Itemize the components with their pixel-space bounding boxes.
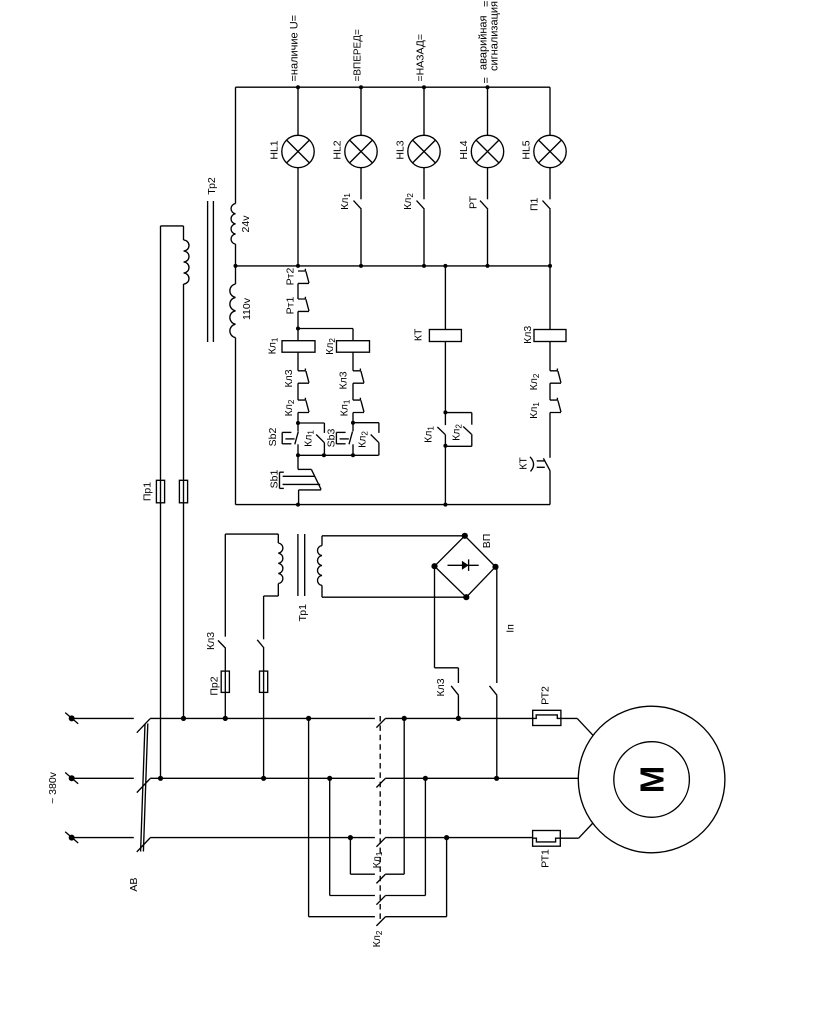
svg-text:Кл1: Кл1 [339,399,352,416]
svg-text:Кл2: Кл2 [528,373,541,390]
svg-text:HL5: HL5 [521,140,533,159]
svg-text:РТ: РТ [467,195,479,209]
svg-text:Sb1: Sb1 [269,470,281,489]
svg-text:Кл2: Кл2 [451,424,464,441]
svg-text:Кл1: Кл1 [528,402,541,419]
svg-text:Пр2: Пр2 [209,676,221,695]
svg-text:HL3: HL3 [395,140,407,159]
svg-text:Кл3: Кл3 [522,326,534,344]
svg-text:Iп: Iп [505,624,517,633]
svg-text:=НАЗАД=: =НАЗАД= [415,34,427,82]
svg-text:24v: 24v [240,215,252,233]
svg-text:~ 380v: ~ 380v [47,771,59,804]
svg-text:Кл2: Кл2 [402,193,415,210]
svg-text:Рт1: Рт1 [285,297,297,315]
svg-text:М: М [634,766,671,794]
svg-text:Кл3: Кл3 [283,369,295,387]
svg-text:Кл1: Кл1 [371,851,384,868]
svg-text:HL1: HL1 [269,140,281,159]
svg-text:Кл2: Кл2 [283,399,296,416]
svg-text:Кл2: Кл2 [371,930,384,947]
svg-text:Кл2: Кл2 [324,338,337,355]
svg-text:РТ2: РТ2 [540,686,552,705]
svg-text:HL2: HL2 [332,140,344,159]
svg-text:Sb2: Sb2 [267,428,279,447]
svg-text:Кл1: Кл1 [303,430,316,447]
svg-text:Рт2: Рт2 [285,268,297,286]
svg-text:Кл3: Кл3 [338,371,350,389]
svg-text:сигнализация: сигнализация [489,1,501,71]
svg-text:110v: 110v [241,297,253,320]
svg-text:Кл1: Кл1 [339,193,352,210]
svg-text:HL4: HL4 [458,140,470,159]
svg-text:Кл2: Кл2 [357,431,370,448]
svg-text:Тр2: Тр2 [206,177,218,195]
svg-text:=наличие U=: =наличие U= [289,15,301,82]
svg-text:КТ: КТ [518,457,530,470]
svg-text:=: = [481,77,493,83]
svg-text:=: = [481,1,493,7]
svg-text:Кл3: Кл3 [435,678,447,696]
svg-text:КТ: КТ [413,328,425,341]
svg-text:Кл1: Кл1 [423,426,436,443]
svg-text:Пр1: Пр1 [142,482,154,501]
svg-text:П1: П1 [529,197,541,211]
svg-text:=ВПЕРЕД=: =ВПЕРЕД= [353,29,364,81]
svg-text:РТ1: РТ1 [540,849,552,868]
svg-text:Кл3: Кл3 [205,632,217,650]
svg-text:Тр1: Тр1 [297,604,309,622]
svg-text:Sb3: Sb3 [326,429,338,448]
svg-text:ВП: ВП [481,534,493,549]
svg-text:АВ: АВ [128,878,140,892]
svg-text:Кл1: Кл1 [267,337,280,354]
